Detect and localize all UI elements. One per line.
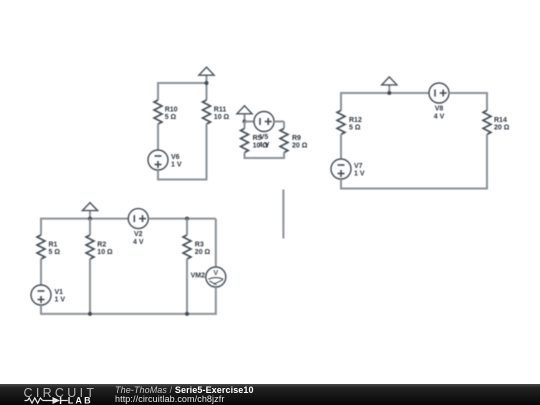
wire: circuit3 left rail upper [340, 92, 342, 110]
svg-text:VM2: VM2 [191, 273, 206, 280]
wire: circuit1 left rail mid [157, 124, 159, 150]
resistor R12 [337, 110, 345, 134]
ground flag circuit4 [82, 203, 97, 219]
svg-text:V1: V1 [55, 289, 64, 296]
resistor R1 [37, 235, 45, 259]
svg-text:4 V: 4 V [434, 114, 445, 121]
voltmeter VM2 [206, 267, 226, 287]
svg-text:R5: R5 [253, 135, 262, 142]
svg-text:R14: R14 [494, 117, 507, 124]
svg-text:20 Ω: 20 Ω [195, 249, 211, 256]
svg-text:10 Ω: 10 Ω [253, 143, 269, 150]
wire: circuit4 rail1 lower [40, 305, 42, 315]
resistor R14 [483, 110, 491, 134]
wire: floating net segment [282, 190, 284, 239]
resistor R11 [203, 100, 211, 124]
wire: circuit1 bottom [158, 179, 207, 181]
svg-text:1 V: 1 V [55, 297, 66, 304]
resistor R10 [154, 100, 162, 124]
node junction circuit4 bottom R3 [185, 312, 189, 316]
svg-text:V8: V8 [435, 106, 444, 113]
resistor R3 [183, 235, 191, 259]
wire: circuit2 left rail upper [244, 122, 246, 129]
wire: circuit4 rail1 upper [40, 218, 42, 235]
wire: circuit3 top right [449, 92, 487, 94]
ground flag circuit2 [237, 106, 252, 122]
svg-text:V2: V2 [134, 231, 143, 238]
svg-text:5 Ω: 5 Ω [165, 114, 177, 121]
wire: circuit3 top left [341, 92, 429, 94]
svg-text:R11: R11 [214, 107, 227, 114]
voltage source V7 [331, 159, 351, 179]
ground flag circuit3 [382, 77, 397, 93]
svg-text:R1: R1 [49, 242, 58, 249]
voltage source V5 [254, 112, 274, 132]
node junction circuit4 bottom R2 [88, 312, 92, 316]
svg-text:5 Ω: 5 Ω [49, 249, 61, 256]
voltage source V2 [128, 209, 148, 229]
wire: circuit4 rail4 lower [215, 287, 217, 315]
svg-text:R12: R12 [349, 117, 362, 124]
wire: circuit2 right rail upper [283, 122, 285, 129]
node junction circuit4 top R3 [185, 217, 189, 221]
svg-text:V6: V6 [171, 154, 180, 161]
wire: circuit2 left rail lower [244, 153, 246, 160]
footer bar [0, 384, 540, 405]
svg-text:R10: R10 [165, 107, 178, 114]
wire: circuit2 bottom [245, 157, 285, 159]
CircuitLab logo [20, 384, 100, 405]
wire: circuit1 right rail lower [206, 124, 208, 181]
wire: circuit2 top right [274, 121, 284, 123]
voltage source V1 [31, 285, 51, 305]
node junction circuit2 [243, 120, 247, 124]
wire: circuit4 bottom [41, 313, 216, 315]
node junction circuit4 ground [88, 217, 92, 221]
svg-text:10 Ω: 10 Ω [97, 249, 113, 256]
wire: circuit4 rail4 upper [215, 219, 217, 267]
node junction circuit1 [205, 81, 209, 85]
wire: circuit3 left rail lower [340, 179, 342, 190]
resistor R9 [280, 129, 288, 153]
wire: circuit4 rail2 upper [89, 219, 91, 235]
wire: circuit3 bottom [341, 188, 487, 190]
node junction circuit3 [387, 91, 391, 95]
svg-text:1 V: 1 V [171, 162, 182, 169]
wire: circuit1 left rail upper [157, 82, 159, 100]
wire: circuit4 rail3 upper [186, 219, 188, 235]
wire: circuit3 right rail upper [486, 92, 488, 110]
svg-text:5 Ω: 5 Ω [349, 125, 361, 132]
voltage source V8 [429, 83, 449, 103]
wire: circuit4 rail3 lower [186, 259, 188, 314]
resistor R2 [86, 235, 94, 259]
wire: circuit1 left rail lower [157, 170, 159, 181]
svg-text:R3: R3 [195, 242, 204, 249]
wire: circuit4 top left [41, 218, 128, 220]
wire: circuit4 top right [148, 218, 216, 220]
wire: circuit2 top left [245, 121, 255, 123]
wire: circuit3 left rail mid [340, 134, 342, 159]
svg-text:V7: V7 [354, 163, 363, 170]
svg-text:4 V: 4 V [133, 239, 144, 246]
title text [115, 386, 254, 404]
voltage source V6 [148, 150, 168, 170]
wire: circuit1 top [158, 82, 207, 84]
svg-text:20 Ω: 20 Ω [292, 143, 308, 150]
svg-text:LAB: LAB [68, 395, 93, 405]
wire: circuit4 rail2 lower [89, 259, 91, 314]
resistor R5 [241, 129, 249, 153]
svg-text:R9: R9 [292, 135, 301, 142]
svg-text:R2: R2 [97, 242, 106, 249]
wire: circuit1 right rail upper [206, 83, 208, 100]
svg-text:1 V: 1 V [354, 171, 365, 178]
svg-text:20 Ω: 20 Ω [494, 125, 510, 132]
wire: circuit2 right rail lower [283, 153, 285, 160]
ground flag circuit1 [199, 67, 214, 83]
svg-text:10 Ω: 10 Ω [214, 114, 230, 121]
wire: circuit3 right rail lower [486, 134, 488, 189]
wire: circuit4 rail1 mid [40, 259, 42, 285]
